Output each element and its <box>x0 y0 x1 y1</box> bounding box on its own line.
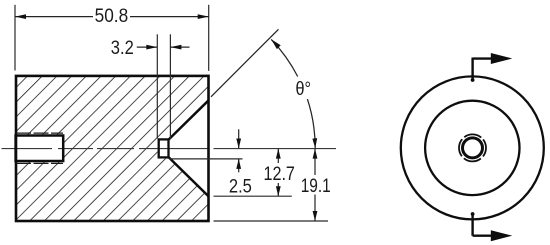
svg-text:12.7: 12.7 <box>263 164 295 185</box>
slot thread dash bottom <box>16 162 63 164</box>
dim 3.2 left extension line <box>156 34 158 138</box>
slot outline <box>16 136 64 162</box>
dim 50.8 right extension line <box>208 5 210 71</box>
dim 50.8 left arrow <box>15 14 26 19</box>
thread major broken circle <box>454 129 492 167</box>
section body hatched rectangle <box>16 76 209 221</box>
dim 12.7 line down arrow <box>277 183 279 196</box>
thread minor circle <box>463 138 483 158</box>
dim 2.5 upper line and down arrow <box>238 129 240 148</box>
svg-text:2.5: 2.5 <box>229 177 252 198</box>
dim 50.8 right arrow <box>198 14 209 19</box>
theta angle arc upper segment <box>271 39 298 76</box>
dim 3.2 left leader with arrow <box>137 46 158 48</box>
hole bottom extension line (2.5) <box>170 158 243 160</box>
theta arc top arrow <box>271 39 281 49</box>
countersink cone white fill <box>169 100 209 196</box>
section arrow bottom: shaft <box>473 234 493 236</box>
svg-text:50.8: 50.8 <box>95 6 129 27</box>
countersink lower edge <box>169 157 209 196</box>
countersink bottom extension line (12.7) <box>214 195 292 197</box>
centerline <box>2 148 337 150</box>
svg-text:3.2: 3.2 <box>111 38 134 59</box>
section arrow bottom: vertical tick <box>471 214 473 236</box>
dim 3.2 right leader with arrow <box>170 46 189 48</box>
section arrow top: head <box>491 53 513 64</box>
center hole white fill <box>158 138 170 158</box>
section arrow bottom: head <box>491 230 513 241</box>
end view big circle <box>401 76 544 219</box>
dim 50.8 left extension line <box>14 5 16 71</box>
dim 3.2 right extension line <box>169 34 171 138</box>
svg-text:θ°: θ° <box>296 79 312 100</box>
dim 50.8 dimension line <box>15 16 93 18</box>
theta angle arc lower segment <box>307 99 315 148</box>
dim 19.1 line down arrow <box>314 195 316 222</box>
countersink upper edge <box>169 100 209 139</box>
theta reference diagonal (extension of cone face) <box>211 29 279 97</box>
dim 2.5 lower line and up arrow <box>238 159 240 172</box>
slot cavity (left threaded hole) white fill <box>15 136 64 162</box>
svg-text:19.1: 19.1 <box>301 176 331 197</box>
section arrow top: vertical tick <box>471 58 473 80</box>
bottom extension line (19.1) <box>214 220 329 222</box>
center hole outline <box>159 139 169 157</box>
end view counterbore circle <box>425 101 519 195</box>
main outline of section rectangle <box>16 76 209 221</box>
dim 12.7 line up arrow <box>277 149 279 163</box>
slot thread dash top <box>16 132 63 134</box>
dim 19.1 line up arrow <box>314 149 316 175</box>
section arrow top: shaft <box>473 57 493 59</box>
theta arc bottom arrow <box>312 138 317 148</box>
